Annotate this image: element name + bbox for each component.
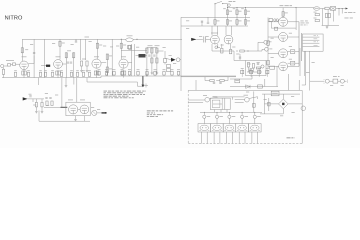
svg-text:NITRO: NITRO	[5, 15, 23, 21]
